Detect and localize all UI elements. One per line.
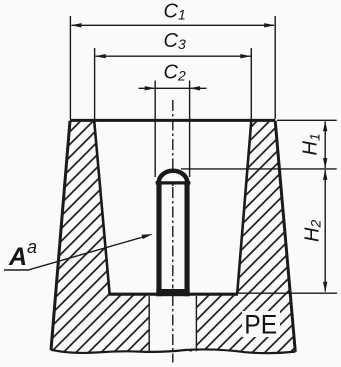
svg-text:H1: H1 (300, 133, 323, 155)
svg-text:H2: H2 (302, 220, 324, 242)
svg-text:C2: C2 (164, 61, 186, 83)
svg-text:a: a (27, 237, 37, 257)
svg-text:PE: PE (244, 310, 277, 340)
svg-text:A: A (8, 243, 27, 271)
svg-text:C1: C1 (164, 0, 186, 22)
svg-text:C3: C3 (164, 30, 186, 52)
